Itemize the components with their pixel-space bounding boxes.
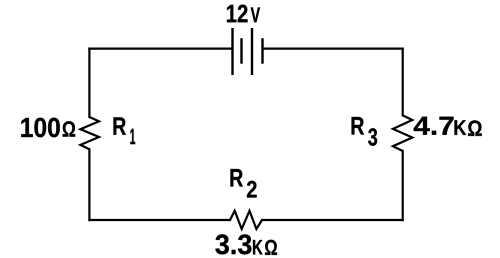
label: "4.7" (R3 value number) [414, 117, 454, 135]
resistor R3 zigzag [393, 115, 412, 151]
resistor R1 zigzag [80, 117, 99, 149]
label: "100" (R1 value number) [21, 118, 60, 138]
wire: left side, above R1 [88, 49, 90, 117]
wire: bottom side, left of R2 [89, 219, 230, 221]
label: "Ω" (R2 ohms unit) [265, 240, 277, 255]
label: R1 reference designator "R" [114, 117, 126, 134]
wire: left side, below R1 [88, 149, 90, 220]
label: "Ω" (R1 ohms unit) [63, 121, 76, 136]
label: R1 subscript "1" [130, 129, 135, 144]
label: "3.3" (R2 value number) [215, 234, 251, 254]
label: R2 reference designator "R" [231, 169, 243, 187]
label: "Ω" (R3 ohms unit) [468, 120, 482, 135]
wire: right side, above R3 [402, 49, 404, 116]
label: "K" (R3 kilo unit) [455, 120, 467, 135]
wire: top side, right of battery [263, 47, 403, 49]
label: "12" (battery voltage value) [227, 5, 248, 23]
label: "V" (volts unit) [251, 8, 260, 23]
wire: bottom side, right of R2 [262, 219, 403, 221]
battery V1 (12 V, two-cell symbol: long/short plates) [233, 28, 263, 75]
label: R3 subscript "3" [368, 128, 377, 146]
wire: right side, below R3 [402, 151, 404, 220]
label: R3 reference designator "R" [352, 117, 364, 135]
resistor R2 zigzag [230, 211, 262, 229]
label: "K" (R2 kilo unit) [253, 240, 263, 254]
wire: top side, left of battery [89, 47, 232, 49]
label: R2 subscript "2" [247, 181, 257, 198]
